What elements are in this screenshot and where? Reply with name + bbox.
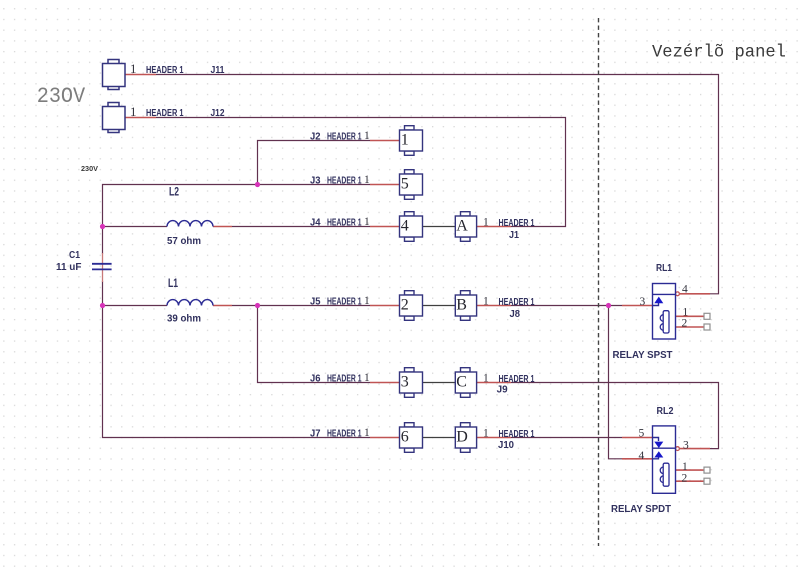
svg-text:HEADER 1: HEADER 1 bbox=[499, 217, 535, 229]
svg-text:HEADER 1: HEADER 1 bbox=[327, 175, 362, 187]
svg-text:23OV: 23OV bbox=[37, 84, 86, 109]
svg-text:J3: J3 bbox=[310, 175, 321, 187]
svg-text:5: 5 bbox=[401, 176, 409, 193]
svg-text:1: 1 bbox=[364, 174, 370, 186]
svg-text:J12: J12 bbox=[211, 107, 225, 119]
svg-text:230V: 230V bbox=[81, 164, 98, 173]
svg-text:2: 2 bbox=[682, 318, 688, 330]
svg-text:1: 1 bbox=[130, 104, 137, 119]
svg-text:HEADER 1: HEADER 1 bbox=[327, 373, 362, 385]
svg-text:HEADER 1: HEADER 1 bbox=[499, 296, 535, 308]
svg-text:1: 1 bbox=[483, 217, 489, 229]
svg-text:L1: L1 bbox=[168, 276, 178, 290]
svg-text:1: 1 bbox=[130, 61, 137, 76]
svg-text:5: 5 bbox=[639, 428, 645, 440]
svg-text:J9: J9 bbox=[497, 384, 508, 396]
svg-text:RL1: RL1 bbox=[656, 262, 672, 274]
svg-text:HEADER 1: HEADER 1 bbox=[327, 296, 362, 308]
svg-text:J1: J1 bbox=[509, 229, 519, 241]
svg-text:J11: J11 bbox=[211, 64, 225, 76]
svg-text:J7: J7 bbox=[310, 428, 321, 440]
svg-text:1: 1 bbox=[483, 373, 489, 385]
svg-text:B: B bbox=[456, 297, 467, 314]
svg-text:HEADER 1: HEADER 1 bbox=[146, 107, 184, 119]
svg-text:1: 1 bbox=[401, 132, 409, 149]
svg-text:1: 1 bbox=[364, 295, 370, 307]
svg-text:2: 2 bbox=[401, 297, 409, 314]
svg-text:1: 1 bbox=[364, 427, 370, 439]
svg-text:6: 6 bbox=[401, 429, 409, 446]
svg-text:J6: J6 bbox=[310, 373, 321, 385]
svg-text:3: 3 bbox=[683, 440, 689, 452]
svg-text:3: 3 bbox=[640, 296, 646, 308]
svg-text:J2: J2 bbox=[310, 131, 321, 143]
svg-text:11 uF: 11 uF bbox=[56, 261, 82, 273]
svg-text:2: 2 bbox=[682, 473, 688, 485]
svg-text:J5: J5 bbox=[310, 296, 321, 308]
svg-text:RL2: RL2 bbox=[657, 405, 674, 417]
svg-text:J4: J4 bbox=[310, 217, 321, 229]
svg-text:J10: J10 bbox=[498, 439, 514, 451]
svg-text:4: 4 bbox=[682, 284, 688, 296]
svg-text:A: A bbox=[456, 218, 468, 235]
svg-text:3: 3 bbox=[401, 374, 409, 391]
svg-text:4: 4 bbox=[401, 218, 409, 235]
svg-text:1: 1 bbox=[364, 372, 370, 384]
svg-text:Vezérlõ panel: Vezérlõ panel bbox=[652, 43, 786, 63]
svg-text:HEADER 1: HEADER 1 bbox=[146, 64, 184, 76]
svg-text:HEADER 1: HEADER 1 bbox=[327, 428, 362, 440]
svg-text:D: D bbox=[456, 429, 468, 446]
svg-text:HEADER 1: HEADER 1 bbox=[327, 217, 362, 229]
svg-text:57 ohm: 57 ohm bbox=[167, 235, 201, 247]
svg-text:C: C bbox=[456, 374, 467, 391]
svg-text:L2: L2 bbox=[169, 185, 179, 199]
svg-text:RELAY SPST: RELAY SPST bbox=[613, 349, 674, 361]
svg-text:1: 1 bbox=[483, 296, 489, 308]
svg-text:1: 1 bbox=[682, 461, 688, 473]
svg-text:1: 1 bbox=[364, 130, 370, 142]
svg-text:1: 1 bbox=[364, 216, 370, 228]
svg-text:J8: J8 bbox=[510, 308, 521, 320]
svg-text:HEADER 1: HEADER 1 bbox=[327, 131, 362, 143]
svg-text:C1: C1 bbox=[69, 249, 80, 261]
svg-text:1: 1 bbox=[483, 428, 489, 440]
svg-text:4: 4 bbox=[639, 450, 645, 462]
svg-text:39 ohm: 39 ohm bbox=[167, 313, 201, 325]
svg-text:RELAY SPDT: RELAY SPDT bbox=[611, 503, 672, 515]
